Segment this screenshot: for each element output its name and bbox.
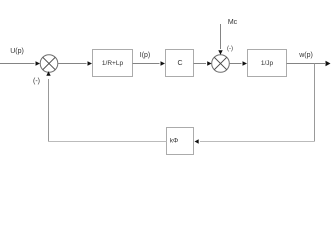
wire feedback up into S1 xyxy=(48,79,50,142)
svg-text:1/R+Lp: 1/R+Lp xyxy=(102,60,124,67)
svg-text:C: C xyxy=(177,60,182,67)
block H1: kPhi xyxy=(167,128,194,155)
svg-text:kΦ: kΦ xyxy=(170,138,178,145)
block G3: 1/Jp xyxy=(248,50,287,77)
svg-text:I(p): I(p) xyxy=(140,52,151,59)
block G1: 1/R+Lp xyxy=(93,50,133,77)
svg-text:(-): (-) xyxy=(227,46,233,52)
wire S2 to block 1/Jp xyxy=(229,63,241,65)
wire input to summing junction 1 xyxy=(0,63,35,65)
wire G3 to output xyxy=(287,63,326,65)
wire takeoff down from output node xyxy=(314,64,316,142)
wire Mc into S2 xyxy=(220,24,222,49)
svg-text:(-): (-) xyxy=(33,78,40,85)
svg-text:U(p): U(p) xyxy=(10,48,24,55)
wire S1 to block 1/R+Lp xyxy=(58,63,87,65)
wire feedback right segment into kPhi block xyxy=(200,141,315,143)
svg-text:1/Jp: 1/Jp xyxy=(261,60,274,67)
svg-text:w(p): w(p) xyxy=(298,52,313,59)
wire G2 to summing junction S2 xyxy=(194,63,207,65)
block G2: C xyxy=(166,50,194,77)
summing junction S1 xyxy=(40,55,58,73)
svg-text:Mc: Mc xyxy=(228,19,238,26)
summing junction S2 xyxy=(212,55,230,73)
wire feedback left segment xyxy=(49,141,167,143)
wire G1 to block C xyxy=(133,63,160,65)
